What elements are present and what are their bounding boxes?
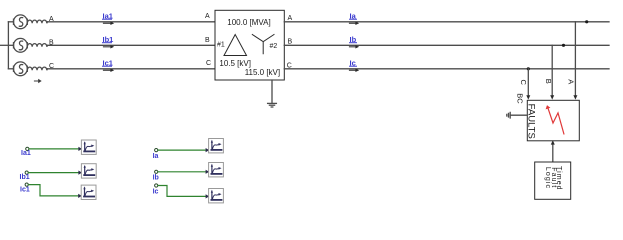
- svg-text:Ia1: Ia1: [21, 150, 31, 157]
- svg-text:Ib1: Ib1: [20, 174, 30, 181]
- wire signal Ib: [158, 171, 207, 173]
- transformer T1 box: [215, 10, 284, 80]
- source Es3 phase C: [14, 62, 28, 76]
- transformer winding 1 delta: [224, 35, 247, 56]
- measuring arrow Ic: [350, 69, 360, 72]
- transformer winding 2 wye: [252, 35, 274, 54]
- wire fault tap A: [573, 22, 577, 100]
- scope Ia: [209, 139, 224, 153]
- svg-text:10.5 [kV]: 10.5 [kV]: [219, 59, 251, 68]
- svg-text:A: A: [205, 13, 210, 20]
- ground transformer neutral: [268, 103, 277, 107]
- svg-text:C: C: [519, 80, 528, 86]
- svg-text:B: B: [205, 37, 210, 44]
- measuring arrow Ib1: [104, 45, 115, 48]
- svg-text:100.0 [MVA]: 100.0 [MVA]: [227, 18, 270, 27]
- source Es1 phase A: [14, 15, 28, 29]
- svg-text:BC: BC: [515, 93, 524, 104]
- svg-text:Ib: Ib: [153, 175, 159, 182]
- scope Ic: [209, 189, 224, 203]
- svg-text:Ic: Ic: [153, 188, 159, 195]
- wire arrowhead Ib: [206, 170, 210, 174]
- wire left stub: [1, 44, 14, 46]
- current label Ic: [350, 58, 357, 67]
- wire arrowhead Ia1: [78, 147, 82, 151]
- scope Ib1: [81, 164, 96, 178]
- scope Ic1: [81, 185, 96, 199]
- wire arrowhead Ia: [206, 148, 210, 152]
- wire signal Ic: [158, 186, 207, 197]
- inductor phase C: [27, 67, 47, 70]
- node Ic: [155, 184, 158, 187]
- node Ia1: [26, 147, 29, 150]
- current label Ib: [350, 35, 357, 44]
- node Ic1: [25, 183, 28, 186]
- svg-text:#2: #2: [270, 43, 278, 50]
- wire phase C to transformer: [47, 68, 215, 70]
- svg-text:C: C: [206, 60, 211, 67]
- timed fault logic title: [544, 166, 562, 191]
- svg-text:B: B: [288, 39, 293, 46]
- ground faults: [507, 112, 510, 118]
- wire signal Ic1: [28, 185, 79, 196]
- svg-text:#1: #1: [217, 41, 225, 48]
- wire arrowhead Ib1: [78, 171, 82, 175]
- svg-text:Ic1: Ic1: [20, 187, 30, 194]
- measuring arrow Ib: [350, 45, 360, 48]
- wire phase B right: [284, 44, 609, 46]
- wire timed fault logic to faults: [551, 140, 555, 162]
- wire phase C right: [284, 68, 609, 70]
- scope Ib: [209, 163, 224, 177]
- source Es2 phase B: [14, 38, 28, 52]
- node Ib: [155, 170, 158, 173]
- measuring arrow Ia1: [104, 22, 115, 25]
- wire source bus vertical: [7, 22, 9, 69]
- faults block U1: [527, 100, 579, 141]
- wire faults ground stub: [510, 114, 527, 116]
- timed fault logic block: [535, 162, 571, 199]
- measuring arrow Ic1: [104, 69, 115, 72]
- scope Ia1: [81, 140, 96, 154]
- junction dot line B: [562, 44, 565, 47]
- current label Ib1: [103, 35, 114, 44]
- fault arc symbol: [546, 105, 564, 134]
- wire transformer neutral: [271, 80, 273, 103]
- wire source A to bus: [8, 21, 13, 23]
- inductor phase B: [27, 44, 47, 47]
- node Ia: [155, 149, 158, 152]
- wire fault tap B: [550, 45, 554, 99]
- svg-text:A: A: [288, 15, 293, 22]
- svg-text:B: B: [544, 79, 553, 84]
- wire phase A right: [284, 21, 609, 23]
- svg-text:Logic: Logic: [544, 167, 551, 189]
- wire fault tap C: [526, 69, 530, 100]
- inductor phase A: [27, 20, 47, 23]
- wire arrowhead Ic: [206, 194, 210, 198]
- wire phase B to transformer: [47, 44, 215, 46]
- current label Ia: [350, 11, 357, 20]
- direction arrow below source C: [34, 79, 41, 83]
- current label Ic1: [103, 58, 113, 67]
- svg-text:A: A: [567, 79, 576, 84]
- wire source C to bus: [8, 68, 13, 70]
- wire signal Ib1: [28, 172, 79, 174]
- junction dot line C: [527, 67, 530, 70]
- svg-text:FAULTS: FAULTS: [525, 104, 536, 139]
- wire arrowhead Ic1: [78, 194, 82, 198]
- measuring arrow Ia: [350, 22, 360, 25]
- junction dot line A: [585, 20, 588, 23]
- wire signal Ia: [158, 149, 207, 151]
- wire signal Ia1: [29, 148, 80, 150]
- current label Ia1: [103, 11, 113, 20]
- wire phase A to transformer: [47, 21, 215, 23]
- svg-text:115.0 [kV]: 115.0 [kV]: [245, 68, 280, 77]
- svg-text:Ia: Ia: [153, 153, 159, 160]
- node Ib1: [25, 171, 28, 174]
